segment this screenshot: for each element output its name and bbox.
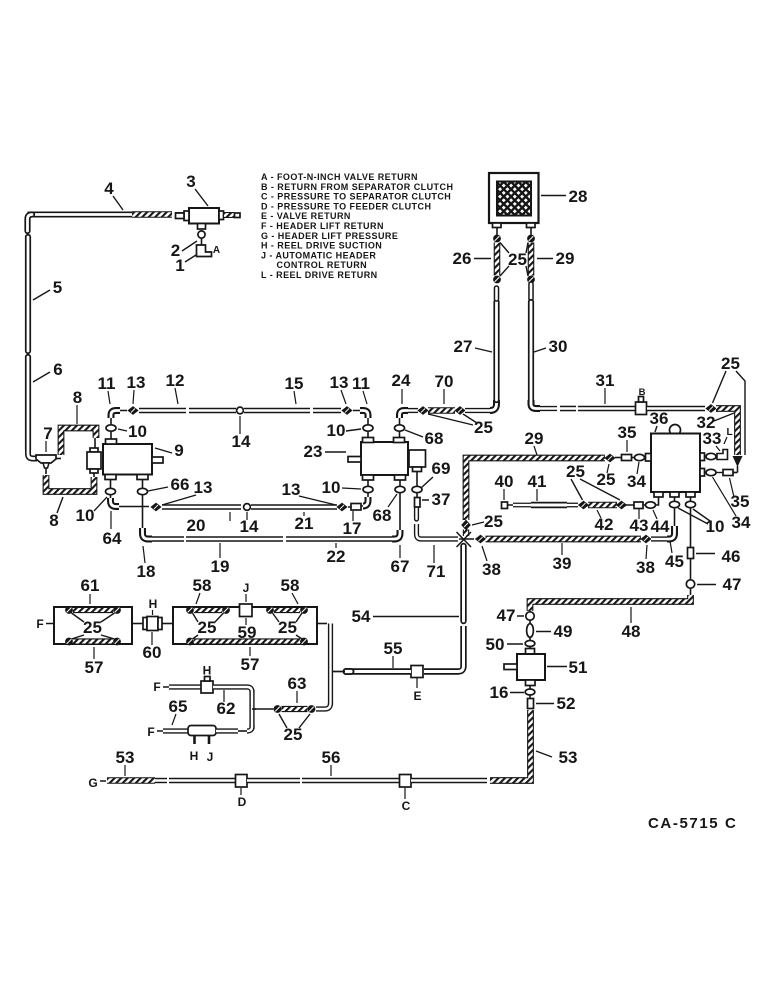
wire line 24 continuation [465, 408, 490, 413]
node C [402, 788, 411, 813]
svg-text:F: F [153, 680, 160, 694]
svg-text:8: 8 [73, 388, 82, 407]
label 30 [534, 337, 567, 356]
svg-text:J: J [207, 750, 214, 764]
fitting E square [411, 666, 423, 678]
wire branch tee to hose 63 [252, 708, 256, 710]
svg-text:42: 42 [595, 515, 614, 534]
svg-text:H: H [190, 749, 199, 763]
svg-text:40: 40 [495, 472, 514, 491]
wire elbow 24 (valve 23 top-right) [400, 411, 409, 419]
label 71 [427, 545, 446, 581]
svg-text:9: 9 [174, 441, 183, 460]
label 13 (row 21 right) [282, 480, 336, 505]
svg-text:64: 64 [103, 529, 122, 548]
valve 9 top port [106, 439, 117, 444]
node F (line 65) [147, 725, 163, 739]
label CA-5715 C [648, 815, 737, 832]
svg-text:45: 45 [665, 552, 684, 571]
fitting 25 diamond (line 70 left) [417, 406, 428, 415]
svg-text:CA-5715 C: CA-5715 C [648, 815, 737, 832]
fitting 2 circle [198, 231, 205, 238]
label 66 [148, 475, 189, 494]
wire valve 9 bottom-left line [110, 480, 112, 489]
svg-text:10: 10 [76, 506, 95, 525]
svg-text:37: 37 [432, 490, 451, 509]
label 57 (manifold 2) [241, 647, 260, 674]
pump/valve 3 body [176, 208, 220, 224]
fitting 66 oval [138, 488, 148, 494]
junction X node [457, 532, 475, 547]
svg-text:H: H [203, 664, 212, 678]
svg-text:26: 26 [453, 249, 472, 268]
svg-text:22: 22 [327, 547, 346, 566]
svg-text:E - VALVE RETURN: E - VALVE RETURN [261, 211, 351, 221]
hose 26 hatched [494, 243, 501, 276]
label 19 [211, 543, 230, 576]
node H (fitting 60) [149, 597, 158, 615]
svg-text:25: 25 [198, 618, 217, 637]
svg-text:68: 68 [373, 506, 392, 525]
svg-text:7: 7 [43, 424, 52, 443]
label 57 (manifold 1) [85, 647, 104, 677]
fitting 13 diamond (row 21 right) [336, 503, 347, 512]
fitting balls hose 63 [274, 705, 316, 713]
label 34 (valve 36 left oval) [627, 462, 646, 491]
label 25 (hose 29 vertical) [472, 512, 503, 531]
svg-text:36: 36 [650, 409, 669, 428]
wire line 31 [540, 406, 635, 411]
fitting arrow end of hose 32 [733, 456, 743, 473]
label 21 [295, 512, 314, 533]
svg-text:L: L [726, 427, 732, 438]
label 58 (right) [281, 576, 300, 604]
svg-text:70: 70 [435, 372, 454, 391]
valve 51 body [504, 647, 545, 686]
svg-text:20: 20 [187, 516, 206, 535]
wire stub 47 to elbow [690, 588, 692, 596]
svg-text:L - REEL DRIVE RETURN: L - REEL DRIVE RETURN [261, 270, 378, 280]
label 68 (valve 23 bottom-right) [373, 494, 397, 525]
svg-text:25: 25 [474, 418, 493, 437]
fitting 37 sleeve [415, 498, 421, 508]
fitting 47 ball (left) [526, 612, 534, 620]
label 46 [696, 547, 740, 566]
hose 48 hatched [530, 595, 691, 611]
svg-text:16: 16 [490, 683, 509, 702]
node A [213, 245, 220, 256]
svg-text:10: 10 [322, 478, 341, 497]
wire manifold1 to fitting 60 [132, 623, 143, 625]
label 34 (lower right) [713, 477, 751, 532]
label 10 (valve 36 bottom) [678, 508, 724, 536]
wire elbow top-left corner of hose 4/5 [28, 215, 33, 232]
wire line 62 right [213, 687, 252, 692]
svg-text:30: 30 [549, 337, 568, 356]
valve 23 right block [409, 450, 426, 472]
fitting 10 oval (port3) [686, 501, 696, 507]
svg-text:4: 4 [104, 179, 114, 198]
valve 36 bottom ports [654, 492, 695, 497]
wire line 20 [162, 504, 241, 509]
label 41 [528, 472, 547, 501]
wire line 56 c [411, 778, 487, 783]
svg-text:35: 35 [618, 423, 637, 442]
label 31 [596, 371, 615, 404]
label 29 (cooler) [537, 249, 574, 268]
svg-text:11: 11 [98, 374, 116, 393]
svg-text:H - REEL DRIVE SUCTION: H - REEL DRIVE SUCTION [261, 241, 382, 251]
fitting 10 oval (port2) [670, 501, 680, 507]
svg-text:38: 38 [636, 558, 655, 577]
label 68 (valve 23 top-right) [405, 429, 443, 448]
node F (manifold 1) [36, 617, 53, 631]
fitting 10 oval (valve 9 top) [106, 425, 116, 431]
label 25 (hose 32) [713, 354, 746, 455]
fitting 43 sleeve [634, 502, 643, 509]
svg-text:53: 53 [559, 748, 578, 767]
svg-text:3: 3 [186, 172, 195, 191]
cooler 28 ports [493, 223, 536, 228]
hose 29c hatched [528, 243, 535, 276]
node J (line 65) [207, 750, 214, 764]
hose 8 lower (hatched) [46, 468, 94, 492]
svg-text:13: 13 [282, 480, 301, 499]
wire stub port3 [690, 559, 692, 581]
svg-text:49: 49 [554, 622, 573, 641]
svg-text:19: 19 [211, 557, 230, 576]
svg-text:54: 54 [352, 607, 371, 626]
svg-text:13: 13 [194, 478, 213, 497]
fitting ball (hose 29c bottom) [527, 276, 535, 284]
label 67 [391, 545, 410, 576]
wire stub2 [615, 457, 622, 459]
hose 70 hatched [428, 407, 455, 414]
wire line 56 b [247, 778, 399, 783]
hose 32 hatched [716, 409, 738, 456]
label 47 (right) [697, 575, 741, 594]
svg-text:F - HEADER LIFT RETURN: F - HEADER LIFT RETURN [261, 221, 384, 231]
label 70 [435, 372, 454, 404]
label 49 [536, 622, 572, 641]
cooler 28 body [489, 173, 539, 223]
svg-text:63: 63 [288, 674, 307, 693]
wire valve 9 bottom-right line [142, 480, 144, 529]
label 26 [453, 249, 491, 268]
label 56 [322, 748, 341, 776]
svg-text:E: E [413, 689, 421, 703]
hose 8 upper (hatched) [61, 428, 96, 455]
svg-text:33: 33 [703, 429, 722, 448]
svg-text:58: 58 [193, 576, 212, 595]
wire elbow hose 39 to valve 36 port2 [651, 526, 675, 539]
label 10 (valve 23 bottom-left) [322, 478, 361, 497]
label 38 (right) [636, 545, 655, 577]
label 6 [33, 360, 63, 382]
label 35 (lower right) [730, 478, 750, 511]
fitting 25 diamond (hose 42 right) [616, 501, 627, 510]
node F (line 62) [153, 680, 169, 694]
fitting B on line 31 [636, 397, 647, 415]
label 36 [650, 409, 669, 432]
label 58 (left) [193, 576, 212, 604]
svg-text:27: 27 [454, 337, 473, 356]
label 28 [541, 187, 587, 206]
fitting 47 ball (right) [686, 580, 694, 588]
wire valve 23 bottom ports [363, 475, 406, 480]
wire line 27 vertical [493, 288, 499, 400]
fitting 10 oval (valve 23 bottom-left) [363, 486, 373, 492]
label 39 [553, 543, 572, 573]
fitting ball (hose 26 bottom) [493, 276, 501, 284]
wire line 62 left [169, 684, 201, 689]
node J (manifold 2) [243, 581, 250, 602]
svg-text:48: 48 [622, 622, 641, 641]
label 22 [327, 543, 346, 566]
label 35 (valve 36 left) [618, 423, 637, 452]
wire line 22 [152, 536, 392, 541]
wire line 15 [244, 408, 341, 414]
svg-text:59: 59 [238, 623, 257, 642]
wire line 31 continuation [647, 406, 705, 412]
svg-text:B: B [639, 387, 646, 398]
wire elbow up to line 27 [490, 400, 497, 411]
wire manifold 2 right drop [316, 624, 331, 710]
fitting 13 diamond (row 20 left) [150, 503, 161, 512]
label 25 (line 70 pair) [428, 414, 493, 437]
hose 61 hatched [73, 607, 113, 613]
label 69 [421, 459, 450, 488]
fitting 50 oval [525, 638, 535, 647]
svg-text:62: 62 [217, 699, 236, 718]
svg-text:CONTROL RETURN: CONTROL RETURN [277, 260, 368, 270]
svg-text:53: 53 [116, 748, 135, 767]
node G [88, 776, 106, 790]
svg-text:71: 71 [427, 562, 446, 581]
svg-text:10: 10 [327, 421, 346, 440]
svg-text:46: 46 [722, 547, 741, 566]
label 25 (manifold 2 right X) [273, 613, 303, 639]
label 10 (valve 9 top) [118, 422, 147, 441]
svg-text:C: C [402, 799, 411, 813]
label 10 (valve 9 bottom-left) [76, 497, 107, 525]
svg-text:6: 6 [53, 360, 62, 379]
svg-text:H: H [149, 597, 158, 611]
wire fitting 60 to manifold 2 [162, 623, 173, 625]
svg-text:5: 5 [53, 278, 62, 297]
svg-text:25: 25 [721, 354, 740, 373]
label 13 (row 20 left) [162, 478, 212, 505]
label 8 lower [49, 497, 63, 530]
label 7 [43, 424, 52, 452]
wire elbow 64 [111, 495, 120, 507]
fitting 38 diamond (hose 39 right) [640, 535, 651, 544]
label 11 (right) [352, 374, 370, 404]
svg-text:D: D [238, 795, 247, 809]
svg-text:56: 56 [322, 748, 341, 767]
fitting 69 oval [412, 486, 422, 492]
label 32 [697, 413, 734, 432]
label 14 (row 12/15) [232, 416, 251, 451]
svg-text:67: 67 [391, 557, 410, 576]
svg-text:B - RETURN FROM SEPARATOR CLUT: B - RETURN FROM SEPARATOR CLUTCH [261, 182, 453, 192]
valve 23 top ports [363, 438, 405, 443]
wire valve 36 port2 line [674, 497, 676, 526]
label 61 [81, 576, 100, 604]
wire line 65 right [216, 725, 252, 731]
fitting 25 diamond (hose 42 left) [578, 501, 589, 510]
svg-text:38: 38 [482, 560, 501, 579]
label 10 (valve 23 top-left) [327, 421, 361, 440]
wire stub 42-43 [626, 504, 634, 506]
hose 57a hatched [73, 638, 113, 644]
label 40 [495, 472, 514, 500]
fitting balls hose 61 [65, 606, 121, 614]
svg-text:A: A [213, 245, 220, 256]
wire valve 23 bottom-left stub [367, 480, 369, 497]
svg-text:18: 18 [137, 562, 156, 581]
fitting 13 diamond (row 12 left) [120, 406, 139, 415]
fitting balls hose 57b [186, 638, 308, 646]
fitting 13 diamond (row 15 right) [341, 406, 360, 415]
svg-text:8: 8 [49, 511, 58, 530]
fitting 10 oval (valve 9 bottom-left) [106, 488, 116, 494]
label 24 [392, 371, 411, 404]
fitting H square (line 62) [201, 677, 213, 694]
fitting 68 oval (valve 23 bottom-right) [395, 486, 405, 492]
label 25 (hose 29 right) [597, 464, 616, 489]
fitting 49 capsule [527, 620, 534, 637]
svg-text:60: 60 [143, 643, 162, 662]
fitting 14 circle (row 12/15) [237, 407, 244, 414]
label 11 (left) [98, 374, 116, 404]
valve 36 left port [646, 454, 652, 462]
fitting 52 sleeve [528, 695, 534, 709]
hose 42 hatched [588, 502, 617, 509]
label 52 [536, 694, 575, 713]
wire elbow line 30 to 31 [531, 400, 540, 409]
valve 9 body [103, 444, 163, 475]
fitting 46 sleeve [688, 548, 694, 559]
wire line 55 left [332, 668, 411, 674]
fitting 34 oval (valve 36 left) [635, 454, 646, 460]
svg-text:47: 47 [723, 575, 742, 594]
fitting balls hose 58a [186, 606, 230, 614]
svg-text:G - HEADER LIFT PRESSURE: G - HEADER LIFT PRESSURE [261, 231, 398, 241]
node E [413, 678, 421, 703]
label 47 (left) [497, 606, 524, 625]
wire cooler right stub [530, 228, 532, 236]
fitting 44 oval [646, 502, 656, 508]
label 12 [166, 371, 185, 404]
label 25 (hose 63) [279, 714, 310, 744]
svg-text:11: 11 [352, 374, 370, 393]
label 5 [33, 278, 62, 300]
valve 36 upper-right port [700, 453, 705, 461]
label 63 [288, 674, 307, 703]
fitting 68 oval (valve 23 top-right) [395, 425, 405, 431]
label 25 (manifold 1 X) [72, 613, 115, 639]
fitting ball (hose 26 top) [493, 235, 501, 243]
label 13 (row 15 right) [330, 373, 349, 404]
hose 53 hatched (bottom left) [107, 777, 155, 784]
svg-text:50: 50 [486, 635, 505, 654]
valve 36 body [651, 434, 700, 493]
label 1 [175, 255, 196, 275]
fitting 16 oval [525, 686, 535, 696]
svg-text:21: 21 [295, 514, 314, 533]
label 65 [169, 697, 188, 725]
valve 36 dome [670, 425, 681, 436]
label 25 (cooler X) [500, 243, 528, 277]
fitting stems below block 65 [195, 736, 210, 745]
wire line 65 left [163, 728, 188, 733]
svg-text:10: 10 [128, 422, 147, 441]
node D [238, 788, 247, 809]
label 60 [143, 632, 162, 662]
wire branch vertical [249, 690, 254, 729]
hose 57b hatched [194, 638, 300, 644]
label 27 [454, 337, 492, 356]
label 53 (left) [116, 748, 135, 776]
label 3 [186, 172, 208, 206]
wire line 71 vertical [417, 507, 459, 539]
fitting L elbow 33 [716, 450, 728, 460]
label 9 [155, 441, 184, 460]
svg-text:39: 39 [553, 554, 572, 573]
label 2 [171, 241, 197, 260]
fitting 25 diamond (hose 32 left) [705, 404, 716, 413]
hose 63 hatched [282, 706, 308, 712]
label 45 [665, 541, 684, 571]
fitting block 65 [188, 726, 216, 736]
wire cooler left stub [496, 228, 498, 236]
wire line 21 [251, 504, 337, 509]
svg-text:15: 15 [285, 374, 304, 393]
svg-text:25: 25 [278, 618, 297, 637]
svg-text:34: 34 [732, 513, 751, 532]
label 33 [703, 429, 722, 451]
svg-text:51: 51 [569, 658, 588, 677]
wire elbow hose 32 to valve 36 [733, 472, 738, 474]
label 14 (row 20/21) [240, 512, 259, 536]
wire line 24 [408, 408, 418, 413]
svg-text:69: 69 [432, 459, 451, 478]
wire valve 23 bottom-right line 67 [399, 480, 401, 530]
svg-text:14: 14 [240, 517, 259, 536]
wire elbow bottom of line 6 [28, 448, 37, 459]
wire line 55 [424, 668, 458, 674]
label 17 [343, 511, 362, 538]
label 13 (row 12 left) [127, 373, 146, 404]
label 42 [595, 510, 614, 534]
wire valve 9 top line [110, 417, 112, 439]
wire sleeve 17 [348, 504, 363, 511]
valve 9 bottom ports [105, 475, 148, 480]
wire stub below right block [416, 472, 418, 487]
label 4 [104, 179, 123, 210]
wire elbow 11 left end of row 12 [111, 411, 120, 419]
wire valve 23 top-right line [399, 418, 401, 437]
label 51 [547, 658, 587, 677]
svg-text:13: 13 [330, 373, 349, 392]
node H (line 62) [203, 664, 212, 678]
svg-text:47: 47 [497, 606, 516, 625]
hose 53 hatched (right riser) [490, 710, 531, 781]
wire stub [632, 457, 636, 459]
label 62 [217, 690, 236, 718]
node B [639, 387, 646, 398]
